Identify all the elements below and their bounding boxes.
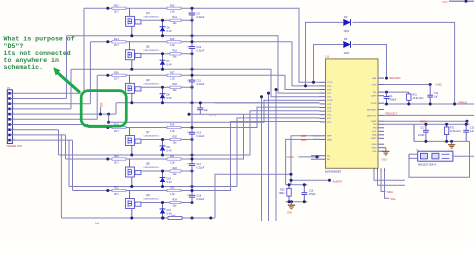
wire SRN net	[286, 139, 320, 184]
pin bottom stub	[384, 168, 386, 171]
junction outer loop at VC9 wire	[304, 84, 307, 87]
junction gate node Q7 at cap column	[191, 138, 194, 141]
svg-text:CSD19531KCS: CSD19531KCS	[144, 83, 160, 85]
resistor R18 26.7	[112, 124, 126, 133]
svg-text:ABS1223-T33F-S: ABS1223-T33F-S	[418, 163, 437, 166]
junction VPACK rail a	[385, 103, 388, 106]
svg-text:100V: 100V	[344, 30, 350, 33]
pin TS3 right	[378, 127, 384, 129]
svg-text:SCL: SCL	[391, 197, 397, 201]
junction VPACK rail b	[407, 103, 410, 106]
svg-text:CAP3: CAP3	[371, 95, 377, 98]
junction source Q7	[130, 154, 133, 157]
wire tap to VC5	[215, 102, 320, 104]
svg-text:SRP: SRP	[327, 136, 332, 138]
wire bottom pin loop 2	[378, 171, 406, 185]
junction bottom rail left	[162, 217, 165, 220]
wire bus line 2 from P1 pin 2	[12, 98, 66, 100]
capacitor C11 0.22uF	[187, 75, 205, 87]
svg-text:10e: 10e	[173, 89, 178, 92]
pin SRN stub	[313, 138, 326, 140]
wire source rail Q7	[59, 154, 216, 156]
pin bottom stub	[373, 168, 375, 171]
svg-text:CHG: CHG	[372, 84, 377, 86]
capacitor C11 4700pF	[384, 92, 397, 104]
resistor R14 26.7	[112, 38, 126, 47]
resistor 10e on gate wire Q4	[170, 16, 181, 25]
resistor R16 26.7	[112, 71, 126, 80]
wire filter bottom rail	[414, 140, 470, 142]
wire gate node of Q8	[141, 170, 192, 172]
wire tap to VC3	[215, 111, 320, 155]
balancing block Q8: tap wire	[66, 158, 216, 160]
svg-text:100V: 100V	[344, 52, 350, 55]
wire gate riser Q4	[129, 8, 131, 16]
resistor 1.3k on tap wire Q4	[167, 4, 181, 13]
ground GND3 cluster	[287, 202, 295, 215]
transistor Q5 CSD19531KCS	[126, 44, 160, 59]
svg-text:R23: R23	[170, 187, 175, 190]
wire cap column segment below Q5	[191, 54, 193, 76]
pin bottom stub	[377, 168, 379, 171]
svg-text:R16: R16	[173, 50, 178, 53]
zener diode D11 5.4V	[160, 203, 172, 219]
wire SRP net	[291, 136, 320, 185]
pin VC6X	[320, 99, 326, 101]
resistor 10e on gate wire Q7	[170, 135, 181, 144]
svg-text:D5: D5	[100, 102, 104, 107]
svg-text:Q9: Q9	[146, 193, 150, 197]
resistor 10e on gate wire Q5	[170, 50, 181, 59]
annotation arrow	[57, 72, 80, 93]
svg-text:SRN: SRN	[301, 138, 307, 142]
junction ALERT end	[328, 179, 331, 182]
wire inner loop top	[314, 45, 344, 83]
svg-text:HEADER 10X1: HEADER 10X1	[7, 145, 23, 148]
svg-text:CAP2: CAP2	[371, 137, 377, 140]
svg-text:CSD19531KCS: CSD19531KCS	[144, 167, 160, 169]
zener diode D9 5.4V	[160, 140, 172, 156]
wire bus line 5 from P1 pin 5	[12, 113, 116, 115]
connector P1	[7, 88, 23, 148]
annotation highlight box around D5 node	[81, 91, 126, 127]
balancing block Q9: tap wire	[73, 190, 216, 192]
svg-text:R20: R20	[173, 135, 178, 138]
svg-text:CSD19531KCS: CSD19531KCS	[144, 136, 160, 138]
junction source rail at cap column Q5	[191, 68, 194, 71]
wire sense strand 3	[261, 97, 263, 221]
junction on tap wire Q4	[106, 7, 109, 10]
wire crystal left lead A	[409, 153, 418, 155]
svg-text:REGSRC: REGSRC	[390, 76, 401, 80]
svg-text:R14: R14	[173, 16, 178, 19]
resistor 1.3k on tap wire Q8	[167, 155, 181, 164]
pin CHG right	[378, 84, 384, 86]
svg-text:Q5: Q5	[146, 44, 150, 48]
pin TS2 right	[378, 123, 384, 125]
junction gate node Q7 at zener	[161, 138, 164, 141]
balancing block Q7: tap wire	[88, 127, 215, 129]
pin GND right	[378, 143, 384, 145]
svg-text:VD2: VD2	[442, 0, 448, 4]
wire source rail Q9	[61, 217, 215, 219]
wire ALERT net	[291, 179, 330, 181]
svg-text:26.7: 26.7	[114, 11, 119, 14]
junction top-right corner	[465, 0, 468, 3]
junction gate node Q6 at cap column	[191, 86, 194, 89]
op-amp U1 BQ76940DBT body	[325, 55, 378, 174]
junction on tap wire Q7	[106, 126, 109, 129]
wire TS1 net	[384, 91, 409, 93]
junction tap wire at cap column Q7	[191, 126, 194, 129]
pin NC1 stub	[311, 155, 326, 157]
wire NC CAP3 net	[299, 156, 320, 158]
junction VPACK rail d	[453, 103, 456, 106]
junction on tap wire Q6	[106, 74, 109, 77]
wire tap5 down branch	[108, 114, 110, 122]
pin REGOUT right	[378, 114, 384, 116]
svg-text:CAP1: CAP1	[371, 120, 377, 123]
junction source Q9	[130, 217, 133, 220]
svg-text:10e: 10e	[173, 173, 178, 176]
svg-text:NC: NC	[327, 159, 331, 161]
wire CHG net	[384, 84, 430, 86]
capacitor C10 1uF	[427, 85, 438, 105]
svg-text:1uF: 1uF	[434, 96, 439, 98]
pin BAT right	[378, 77, 384, 79]
svg-text:its not connected: its not connected	[4, 50, 71, 57]
junction strand 1	[275, 88, 278, 91]
wire tap to VC4	[215, 107, 320, 127]
svg-text:What is purpose of: What is purpose of	[4, 36, 75, 43]
junction gate node Q8 at zener	[161, 170, 164, 173]
svg-text:VC10: VC10	[327, 82, 333, 84]
svg-text:"D5"?: "D5"?	[4, 43, 24, 50]
pin VC10	[320, 81, 326, 83]
svg-text:26.7: 26.7	[114, 78, 119, 81]
wire gate node of Q9	[141, 202, 192, 204]
junction gate node Q8 at cap column	[191, 170, 194, 173]
wire TS2 net to filter	[384, 123, 414, 125]
svg-text:10e: 10e	[173, 56, 178, 59]
junction gate node Q5 at zener	[161, 52, 164, 55]
capacitor C16 470pF	[301, 185, 316, 202]
wire cluster bottom rail	[286, 201, 308, 203]
junction on tap5 wire at D5	[99, 113, 102, 116]
wire bus line 3 from P1 pin 3	[12, 103, 90, 105]
svg-text:R12: R12	[114, 4, 119, 7]
wire riser down to block6	[72, 140, 74, 190]
svg-text:VSS: VSS	[372, 151, 377, 153]
svg-text:CSD19531KCS: CSD19531KCS	[144, 16, 160, 18]
svg-text:schematic.: schematic.	[4, 64, 44, 71]
resistor 1.3k on tap wire Q6	[167, 71, 181, 80]
annotation question text	[4, 36, 75, 71]
junction inner loop at VC10 wire	[312, 81, 315, 84]
wire bottom pin to SCL label	[385, 171, 390, 198]
junction SR node elbow	[290, 173, 293, 176]
svg-text:1uF: 1uF	[204, 110, 209, 112]
capacitor C10 0.22uF	[187, 42, 205, 54]
junction VC5 sense cap top	[199, 101, 202, 104]
pin VC0	[320, 121, 326, 123]
svg-text:CHG: CHG	[436, 83, 443, 87]
wire gate riser Q6	[129, 75, 131, 83]
svg-text:470pF: 470pF	[309, 193, 316, 196]
pin VC6	[320, 96, 326, 98]
svg-text:R24: R24	[173, 198, 178, 201]
pin VC1	[320, 117, 326, 119]
svg-text:SDA: SDA	[387, 190, 393, 194]
junction tap wire at cap column Q4	[191, 7, 194, 10]
zener diode D7 5.4V	[160, 54, 172, 70]
pin SCL right	[378, 130, 384, 132]
svg-text:NC: NC	[327, 156, 331, 158]
wire tap B10 to VC10	[215, 8, 320, 82]
svg-text:GND: GND	[382, 159, 388, 162]
junction on tap wire Q8	[106, 158, 109, 161]
wire tap to VC1	[237, 118, 320, 187]
svg-text:1uF: 1uF	[470, 131, 474, 133]
svg-text:BQ76940DBT: BQ76940DBT	[325, 169, 342, 173]
wire cap column segment below Q4	[191, 20, 193, 42]
svg-text:26.7: 26.7	[114, 44, 119, 47]
wire gate node of Q6	[141, 86, 192, 88]
pin SRP stub	[313, 135, 326, 137]
wire cap column segment below Q7	[191, 140, 193, 160]
svg-text:SDA: SDA	[372, 134, 377, 137]
svg-text:5.4V: 5.4V	[167, 149, 172, 152]
pin CAP2 right	[378, 137, 384, 139]
resistor 1.3k on tap wire Q9	[167, 187, 181, 196]
junction source rail at cap column Q8	[191, 185, 194, 188]
wire lower branch to pin fan	[109, 100, 320, 122]
junction source rail at cap column Q4	[191, 34, 194, 37]
svg-text:GND: GND	[372, 148, 377, 150]
balancing block Q6: tap wire	[97, 74, 215, 76]
pin CAP1 right	[378, 120, 384, 122]
junction tap wire at cap column Q9	[191, 189, 194, 192]
wire source rail Q6	[116, 102, 320, 104]
junction source Q5	[130, 68, 133, 71]
svg-text:1.3k: 1.3k	[170, 130, 175, 133]
svg-text:SRP: SRP	[301, 134, 307, 138]
svg-text:1.3k: 1.3k	[170, 11, 175, 14]
pin TS1 right	[378, 91, 384, 93]
junction bottom rail right	[209, 217, 212, 220]
svg-text:1.3k: 1.3k	[170, 78, 175, 81]
wire source of Q5	[131, 60, 133, 70]
ground GND2 filter	[448, 141, 456, 153]
capacitor C12 0.22uF	[187, 128, 205, 140]
wire riser tap2 up to block1 source	[66, 36, 68, 99]
svg-text:Q6: Q6	[146, 78, 150, 82]
pin bottom stub	[380, 168, 382, 171]
svg-text:D3: D3	[344, 15, 348, 19]
resistor 10e on gate wire Q9	[170, 198, 181, 207]
svg-text:Q4: Q4	[146, 11, 150, 15]
junction VPACK rail c	[429, 103, 432, 106]
transistor Q6 CSD19531KCS	[126, 78, 160, 93]
resistor RT2 10.0k ohm	[444, 124, 461, 141]
resistor 1.3k on tap wire Q5	[167, 38, 181, 47]
wire tap to VC8	[215, 75, 320, 89]
crystal Y1 ABS1223-T33F-S	[416, 149, 453, 166]
svg-text:R20: R20	[114, 155, 119, 158]
svg-text:0.22uF: 0.22uF	[197, 135, 205, 138]
svg-text:C10: C10	[434, 93, 439, 95]
svg-text:0.22uF: 0.22uF	[197, 198, 205, 201]
junction filter rail a	[424, 123, 427, 126]
junction CHG at C10	[429, 83, 432, 86]
wire cap column segment below Q8	[191, 171, 193, 191]
junction source rail at cap column Q6	[191, 101, 194, 104]
svg-text:to anywhere in: to anywhere in	[4, 57, 59, 64]
junction CAP1 net	[466, 120, 469, 123]
svg-text:26.7: 26.7	[114, 161, 119, 164]
pin REGSRC right	[378, 109, 384, 111]
wire tap to VC0	[215, 122, 320, 191]
wire riser tap1 up to block1	[83, 8, 85, 93]
junction on tap wire Q9	[106, 189, 109, 192]
capacitor C17 0.22uF	[187, 159, 205, 171]
svg-text:R14: R14	[114, 38, 119, 41]
svg-text:Q8: Q8	[146, 162, 150, 166]
wire REGOUT net	[384, 114, 474, 116]
pin VC4	[320, 107, 326, 109]
svg-text:10Mo: 10Mo	[279, 192, 286, 195]
wire source rail Q8	[69, 186, 237, 188]
zener diode D10 5.4V	[160, 171, 172, 187]
svg-text:VC5X: VC5X	[371, 103, 377, 105]
wire bottom pin SCLK loop 1	[374, 171, 405, 180]
svg-text:0.22uF: 0.22uF	[197, 16, 205, 19]
svg-text:REGSRC: REGSRC	[367, 109, 377, 111]
wire riser tap6 up to block3	[96, 75, 98, 119]
pin SDA right	[378, 134, 384, 136]
resistor 10e on gate wire Q6	[170, 83, 181, 92]
svg-text:SENSE: SENSE	[209, 114, 218, 117]
wire VPACK rail	[384, 103, 474, 105]
junction tap wire at cap column Q6	[191, 74, 194, 77]
junction gate node Q9 at cap column	[191, 201, 194, 204]
wire source of Q4	[131, 26, 133, 36]
junction source Q8	[130, 185, 133, 188]
svg-text:C15: C15	[470, 127, 474, 129]
zener diode D8 5.4V	[160, 87, 172, 103]
svg-text:10.0k ohm: 10.0k ohm	[413, 97, 424, 100]
wire gate riser Q9	[129, 191, 131, 199]
svg-text:5.4V: 5.4V	[167, 181, 172, 184]
wire riser tap3 up to block2	[89, 42, 91, 104]
pin VC7	[320, 92, 326, 94]
svg-text:ALERT: ALERT	[333, 179, 343, 183]
wire source of Q9	[131, 209, 133, 219]
wire bus line 6 from P1 pin 6	[12, 118, 97, 120]
resistor R12 26.7	[112, 4, 126, 13]
svg-text:R18: R18	[173, 83, 178, 86]
wire BAT net	[385, 77, 388, 80]
wire gate riser Q8	[129, 159, 131, 167]
transistor Q8 CSD19531KCS	[126, 162, 160, 177]
wire gate node of Q7	[141, 139, 192, 141]
pin VC9	[320, 85, 326, 87]
wire sense strand 2	[268, 93, 270, 221]
wire bottom rail to SR node	[215, 174, 291, 218]
junction cluster rail b	[288, 200, 291, 203]
transistor Q7 CSD19531KCS	[126, 130, 160, 145]
svg-text:VPACK: VPACK	[458, 100, 467, 104]
junction strand 3	[260, 95, 263, 98]
wire bus line 7 from P1 pin 7	[12, 124, 88, 126]
capacitor on VC5 sense wire	[197, 103, 208, 114]
svg-text:R16: R16	[114, 71, 119, 74]
svg-text:BAT: BAT	[372, 77, 377, 80]
svg-text:PACK-: PACK-	[420, 120, 428, 124]
svg-text:1.3k: 1.3k	[170, 161, 175, 164]
svg-text:GND: GND	[287, 212, 293, 215]
pin VC3	[320, 110, 326, 112]
wire gate node of Q4	[141, 19, 192, 21]
wire source rail Q5	[71, 68, 215, 70]
wire riser tap9 down to block5	[65, 135, 67, 159]
wire gate node of Q5	[141, 53, 192, 55]
wire bus line 10 from P1 pin 10	[12, 139, 72, 141]
pin CAP3 right	[378, 95, 384, 97]
wire tap to VC6	[215, 69, 320, 96]
junction cluster rail a	[288, 183, 291, 186]
wire CAP1 drop	[466, 121, 468, 124]
svg-text:C17: C17	[420, 127, 425, 129]
wire riser tap10 down to block5 source	[68, 140, 70, 186]
wire outer loop top	[306, 22, 344, 86]
wire riser tap8 down to block4 source	[58, 130, 60, 155]
junction source Q4	[130, 34, 133, 37]
wire source rail Q4	[67, 35, 216, 37]
wire CAP1 net	[384, 120, 467, 122]
junction source rail at cap column Q9	[191, 217, 194, 220]
transistor Q4 CSD19531KCS	[126, 11, 160, 26]
svg-text:0.22uF: 0.22uF	[197, 83, 205, 86]
svg-text:REGOUT: REGOUT	[367, 115, 377, 117]
wire sense rail to VC2	[189, 113, 244, 115]
resistor 1m0 shunt on bottom rail	[168, 215, 182, 220]
svg-text:D4: D4	[344, 37, 348, 41]
pin NC2 stub	[311, 158, 326, 160]
wire filter left side	[413, 124, 415, 141]
wire riser tap4 up to block2 source	[70, 69, 72, 109]
wire tap to VC7	[215, 36, 320, 93]
svg-text:4700pF: 4700pF	[389, 100, 397, 102]
svg-text:VC6X: VC6X	[327, 100, 333, 102]
wire filter top rail	[414, 123, 470, 125]
svg-text:SRN: SRN	[327, 139, 332, 141]
junction source Q6	[130, 101, 133, 104]
pin VC5X right	[378, 102, 384, 104]
diode D3 100V	[343, 15, 351, 33]
transistor Q9 CSD19531KCS	[126, 193, 160, 208]
junction tap wire at cap column Q5	[191, 40, 194, 43]
diode D4 100V	[343, 37, 351, 55]
svg-text:REGOUT: REGOUT	[386, 111, 398, 115]
wire source of Q7	[131, 146, 133, 156]
wire bottom pin to SDA label	[381, 171, 386, 192]
junction tap wire at cap column Q8	[191, 158, 194, 161]
svg-text:470pF: 470pF	[418, 135, 425, 137]
svg-text:GND: GND	[372, 144, 377, 146]
svg-text:10e: 10e	[173, 22, 178, 25]
resistor R29 100R	[279, 185, 292, 202]
